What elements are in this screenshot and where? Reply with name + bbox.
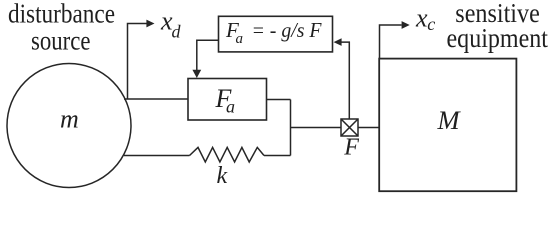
spring k zigzag <box>190 147 265 162</box>
svg-text:x: x <box>415 3 428 32</box>
svg-text:equipment: equipment <box>447 23 549 53</box>
arrowhead x_c <box>402 21 410 29</box>
arrowhead x_d <box>146 20 154 28</box>
svg-text:k: k <box>217 163 228 189</box>
arrowhead into actuator Fa <box>192 70 201 78</box>
wire: sensor feedback up to controller <box>341 42 349 119</box>
svg-text:disturbance: disturbance <box>8 0 115 29</box>
svg-text:m: m <box>60 105 79 134</box>
svg-text:source: source <box>31 26 91 56</box>
force sensor X diagonals <box>341 119 358 136</box>
arrowhead into controller <box>334 38 342 46</box>
wire: junction bar to force sensor <box>291 127 342 129</box>
svg-text:M: M <box>437 105 462 135</box>
wire: controller output to actuator <box>197 40 219 70</box>
svg-text:d: d <box>172 22 182 42</box>
svg-text:a: a <box>236 31 244 47</box>
wire: x_d pickoff from force line up and right <box>128 24 148 100</box>
wire: circle to spring <box>124 155 190 157</box>
svg-text:F: F <box>343 134 359 160</box>
wire: circle to actuator box <box>124 98 188 100</box>
actuator box Fa <box>188 79 267 121</box>
wire: sensor to mass M <box>358 127 379 129</box>
wire: spring to junction bar <box>264 155 291 157</box>
svg-text:a: a <box>226 97 235 117</box>
svg-text:c: c <box>427 14 435 34</box>
wire: junction vertical bar <box>290 100 292 156</box>
wire: actuator to junction bar <box>267 99 291 101</box>
svg-text:= - g/s F: = - g/s F <box>252 18 322 42</box>
force sensor box F <box>341 119 358 136</box>
mass m circle (disturbance source) <box>7 64 131 188</box>
wire: x_c pickoff from M box corner up and right <box>380 25 402 59</box>
controller box <box>219 16 333 52</box>
mass M box (sensitive equipment) <box>379 59 516 192</box>
